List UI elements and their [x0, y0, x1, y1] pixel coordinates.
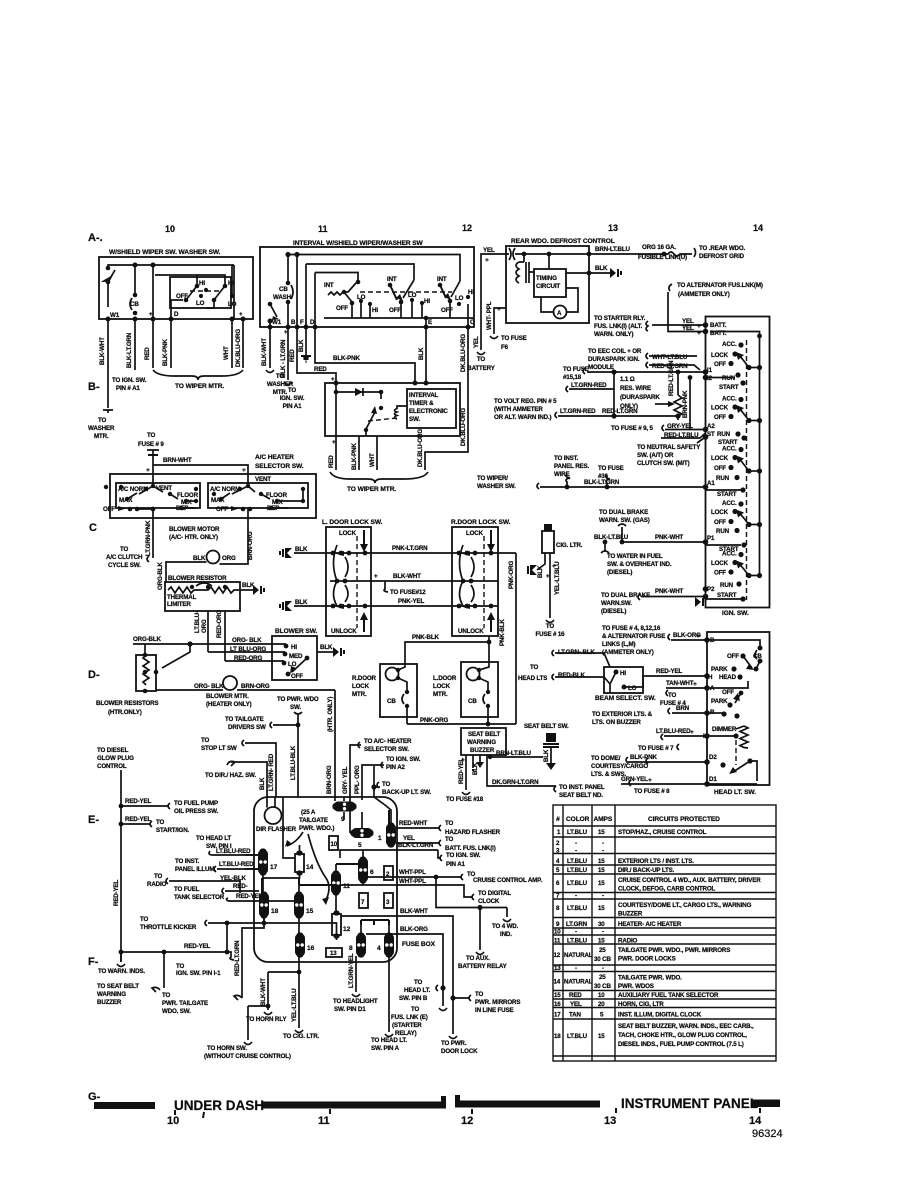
svg-text:-: -	[575, 848, 577, 855]
svg-text:15: 15	[598, 1033, 605, 1040]
svg-text:TO WIPER/: TO WIPER/	[477, 475, 508, 482]
svg-text:BUZZER: BUZZER	[618, 911, 643, 918]
svg-text:RED-YEL: RED-YEL	[458, 758, 465, 784]
svg-text:DK.BLU-ORG: DK.BLU-ORG	[235, 329, 242, 367]
svg-text:IN LINE FUSE: IN LINE FUSE	[475, 1007, 513, 1014]
svg-text:ACC.: ACC.	[722, 341, 737, 348]
fuse 14	[295, 854, 304, 872]
svg-text:RED-LT.GRN: RED-LT.GRN	[602, 408, 638, 415]
ground cig	[530, 565, 537, 575]
svg-text:SEAT BELT BUZZER, WARN. INDS.,: SEAT BELT BUZZER, WARN. INDS., EEC CARB.…	[618, 1023, 754, 1030]
wire BLK-WHT to washer motor	[107, 319, 109, 408]
svg-text:TO INST. PANEL: TO INST. PANEL	[559, 784, 605, 791]
svg-text:DIR./ BACK-UP LTS.: DIR./ BACK-UP LTS.	[618, 867, 675, 874]
timing circuit box U1	[534, 269, 566, 297]
svg-text:BLK: BLK	[537, 565, 544, 578]
wire YEL BATT 1	[652, 324, 706, 326]
svg-text:13: 13	[608, 223, 618, 233]
svg-text:TO: TO	[98, 417, 107, 424]
svg-text:TAILGATE PWR. WDO.: TAILGATE PWR. WDO.	[618, 975, 682, 982]
svg-text:A: A	[557, 310, 562, 317]
svg-text:RED-WHT: RED-WHT	[399, 820, 428, 827]
svg-text:TO: TO	[382, 781, 391, 788]
svg-text:BLK-PNK: BLK-PNK	[630, 754, 657, 761]
svg-text:#15,18: #15,18	[563, 374, 582, 381]
svg-text:11: 11	[343, 883, 350, 890]
svg-text:SW. PIN A: SW. PIN A	[371, 1045, 400, 1052]
svg-text:LOCK: LOCK	[711, 352, 729, 359]
blower switch arm	[305, 656, 310, 661]
svg-text:HEATER- A/C HEATER: HEATER- A/C HEATER	[618, 921, 682, 928]
svg-text:+: +	[552, 563, 556, 570]
svg-text:CYCLE SW.: CYCLE SW.	[108, 562, 141, 569]
svg-text:TO PWR.: TO PWR.	[441, 1040, 467, 1047]
svg-text:RED-YEL: RED-YEL	[113, 880, 120, 906]
svg-text:WHT-PPL: WHT-PPL	[399, 878, 426, 885]
svg-text:RED-LT.GRN: RED-LT.GRN	[668, 360, 675, 396]
svg-text:YEL: YEL	[682, 325, 694, 332]
svg-text:RED-YEL: RED-YEL	[125, 816, 151, 823]
svg-text:12: 12	[554, 952, 561, 959]
svg-text:LTS. ON BUZZER: LTS. ON BUZZER	[592, 719, 641, 726]
internal bus wires	[299, 810, 389, 925]
svg-text:15: 15	[598, 858, 605, 865]
relay coil	[380, 392, 382, 399]
svg-text:DK.BLU-ORG: DK.BLU-ORG	[417, 429, 424, 467]
svg-text:(DIESEL): (DIESEL)	[607, 569, 632, 576]
svg-text:A/C CLUTCH: A/C CLUTCH	[106, 554, 143, 561]
fuse 4	[384, 934, 394, 956]
svg-text:15: 15	[598, 880, 605, 887]
svg-text:TO ALTERNATOR FUS.LNK(M): TO ALTERNATOR FUS.LNK(M)	[677, 282, 763, 289]
svg-text:TO A/C- HEATER: TO A/C- HEATER	[364, 738, 412, 745]
wire TAN-WHT to A	[666, 687, 707, 689]
svg-text:TO: TO	[475, 991, 484, 998]
svg-text:LO: LO	[408, 292, 417, 299]
svg-text:FUSE # 9: FUSE # 9	[138, 441, 164, 448]
svg-text:+: +	[690, 729, 694, 736]
diode	[355, 388, 363, 396]
svg-text:TO: TO	[546, 623, 555, 630]
svg-text:OIL PRESS SW.: OIL PRESS SW.	[174, 808, 218, 815]
svg-text:CLUTCH SW. (M/T): CLUTCH SW. (M/T)	[637, 460, 690, 467]
svg-text:10: 10	[554, 929, 561, 936]
svg-text:ACC.: ACC.	[722, 500, 737, 507]
svg-text:RADIO: RADIO	[618, 938, 638, 945]
svg-text:+: +	[239, 311, 243, 318]
svg-text:RED: RED	[328, 455, 335, 468]
svg-text:TO CIG. LTR.: TO CIG. LTR.	[283, 1033, 320, 1040]
svg-text:BRN-LT.BLU: BRN-LT.BLU	[496, 750, 531, 757]
ROWCOL_LABELS	[88, 223, 763, 1103]
svg-text:RED-LT.GRN: RED-LT.GRN	[234, 940, 241, 976]
svg-text:BACK-UP LT. SW.: BACK-UP LT. SW.	[382, 789, 432, 796]
wire W1 to washer mtr	[269, 327, 271, 368]
svg-text:WHT: WHT	[223, 346, 230, 360]
resistor res wire	[674, 395, 682, 416]
svg-text:11: 11	[554, 938, 561, 945]
svg-text:+: +	[696, 633, 700, 640]
circuit breaker CB	[133, 293, 138, 298]
wiper speed switch contacts	[171, 300, 183, 319]
SEC_BOTTOM	[94, 1095, 783, 1140]
svg-text:8: 8	[349, 945, 353, 952]
svg-text:IND.: IND.	[500, 931, 512, 938]
svg-text:16: 16	[307, 945, 315, 952]
svg-text:HI: HI	[620, 670, 626, 677]
seat belt warning buzzer F	[152, 952, 164, 992]
svg-text:MTR.: MTR.	[94, 433, 109, 440]
svg-text:-: -	[575, 893, 577, 900]
brace to wiper mtr	[330, 472, 428, 483]
svg-text:ORG 16 GA.: ORG 16 GA.	[642, 244, 676, 251]
svg-text:1.1 Ω: 1.1 Ω	[620, 376, 635, 383]
svg-text:RED: RED	[569, 992, 582, 999]
svg-text:13: 13	[330, 950, 337, 957]
spare box 13	[326, 948, 342, 957]
svg-text:ORG: ORG	[201, 619, 208, 633]
svg-text:ORG-BLK: ORG-BLK	[157, 561, 164, 590]
svg-text:BATT.: BATT.	[710, 322, 727, 329]
svg-text:BATTERY: BATTERY	[467, 365, 496, 372]
svg-text:BLK-WHT: BLK-WHT	[99, 337, 106, 365]
spare box 2	[384, 866, 393, 880]
svg-text:TO: TO	[156, 819, 165, 826]
svg-text:LT.GRN-RED: LT.GRN-RED	[560, 408, 596, 415]
svg-text:-: -	[602, 965, 604, 972]
svg-text:BEAM SELECT. SW.: BEAM SELECT. SW.	[595, 695, 656, 702]
svg-text:25: 25	[599, 947, 606, 954]
svg-text:F-: F-	[88, 956, 99, 968]
svg-text:ACC.: ACC.	[722, 446, 737, 453]
svg-text:SW.: SW.	[409, 416, 420, 423]
svg-text:INT: INT	[324, 282, 334, 289]
svg-text:DIR FLASHER: DIR FLASHER	[256, 826, 297, 833]
beam select switch	[604, 667, 643, 693]
svg-text:TO INST.: TO INST.	[175, 858, 200, 865]
wire GRN-YEL to D1	[621, 783, 707, 785]
svg-text:W/SHIELD WIPER SW. WASHER SW.: W/SHIELD WIPER SW. WASHER SW.	[109, 249, 221, 256]
svg-text:NATURAL: NATURAL	[564, 979, 593, 986]
svg-text:LOCK: LOCK	[711, 509, 729, 516]
svg-text:+: +	[146, 467, 150, 474]
svg-text:BATTERY RELAY: BATTERY RELAY	[458, 963, 508, 970]
svg-text:TO INST.: TO INST.	[554, 455, 579, 462]
svg-text:OFF: OFF	[714, 361, 726, 368]
svg-text:BLK-WHT: BLK-WHT	[260, 978, 267, 1006]
svg-text:STOP LT SW: STOP LT SW	[201, 745, 237, 752]
capacitor symbol	[509, 248, 524, 260]
svg-text:BATT. FUS. LNK(I): BATT. FUS. LNK(I)	[445, 845, 496, 852]
svg-text:TO: TO	[120, 546, 129, 553]
svg-text:SW.: SW.	[290, 704, 301, 711]
wire PNK-LT.GRN	[294, 552, 516, 554]
SEC_AC_HEATER	[96, 432, 344, 716]
svg-text:LOCK: LOCK	[433, 683, 451, 690]
svg-text:BLK-LT.GRN: BLK-LT.GRN	[126, 332, 133, 368]
svg-text:18: 18	[271, 908, 279, 915]
fuse 16	[295, 934, 305, 956]
svg-text:TO: TO	[162, 992, 171, 999]
wire RED-YEL from beam select	[643, 675, 707, 677]
svg-text:-: -	[575, 965, 577, 972]
svg-text:HEAD: HEAD	[719, 674, 737, 681]
grid column number 12 bottom	[471, 1109, 473, 1114]
spare box 10	[329, 836, 338, 850]
svg-text:#: #	[556, 816, 560, 823]
wire PNK-WHT to P2	[641, 596, 706, 598]
svg-text:TO: TO	[411, 1006, 420, 1013]
svg-text:11: 11	[318, 1115, 330, 1127]
washer switch	[268, 302, 273, 307]
fuse 6	[358, 858, 368, 882]
svg-text:CB: CB	[468, 698, 477, 705]
horn sw	[244, 1006, 268, 1045]
svg-text:TO DUAL BRAKE: TO DUAL BRAKE	[601, 592, 650, 599]
svg-text:UNLOCK: UNLOCK	[458, 628, 484, 635]
svg-text:30 CB: 30 CB	[594, 956, 611, 963]
svg-text:LTS. & SWS.: LTS. & SWS.	[591, 771, 626, 778]
wire bus2	[306, 264, 414, 280]
svg-text:A1: A1	[707, 480, 715, 487]
svg-text:TO SEAT BELT: TO SEAT BELT	[97, 983, 139, 990]
svg-text:+: +	[497, 306, 501, 313]
svg-text:INT: INT	[437, 276, 447, 283]
svg-text:RUN: RUN	[722, 375, 736, 382]
wire RED-WHT hazard flasher	[396, 827, 440, 829]
svg-text:DEFROST GRID: DEFROST GRID	[699, 253, 745, 260]
svg-text:5: 5	[358, 842, 362, 849]
svg-text:DRIVERS SW: DRIVERS SW	[228, 724, 266, 731]
svg-text:TO: TO	[140, 916, 149, 923]
svg-text:TO FUSE: TO FUSE	[501, 335, 527, 342]
BRN-PNK wire	[689, 378, 691, 430]
svg-text:TO FUSE # 4, 8,12,16: TO FUSE # 4, 8,12,16	[602, 625, 661, 632]
fuse 5	[352, 828, 372, 838]
svg-text:ACC.: ACC.	[722, 396, 737, 403]
svg-text:EXTERIOR LTS / INST. LTS.: EXTERIOR LTS / INST. LTS.	[618, 858, 694, 865]
svg-text:BRN-ORG: BRN-ORG	[247, 531, 254, 560]
svg-text:TACH, CHOKE HTR., GLOW PLUG CO: TACH, CHOKE HTR., GLOW PLUG CONTROL,	[618, 1032, 747, 1039]
svg-text:R.DOOR LOCK SW.: R.DOOR LOCK SW.	[451, 519, 511, 526]
svg-text:RADIO: RADIO	[147, 881, 167, 888]
svg-text:(DIESEL): (DIESEL)	[601, 608, 626, 615]
svg-text:(STARTER: (STARTER	[392, 1022, 422, 1029]
svg-text:SEAT BELT SW.: SEAT BELT SW.	[524, 723, 569, 730]
fuse 18	[259, 893, 269, 917]
svg-text:30: 30	[598, 921, 605, 928]
svg-text:WASHER: WASHER	[88, 425, 115, 432]
svg-text:IGN. SW.: IGN. SW.	[722, 610, 749, 617]
svg-text:LO: LO	[455, 295, 464, 302]
svg-text:LT.BLU: LT.BLU	[567, 829, 588, 836]
svg-text:CIG. LTR.: CIG. LTR.	[556, 542, 583, 549]
svg-text:RED: RED	[144, 347, 151, 360]
svg-text:HI: HI	[468, 289, 474, 296]
svg-text:PARK: PARK	[711, 698, 728, 705]
svg-text:ORG-BLK: ORG-BLK	[133, 636, 162, 643]
fuse table frame	[553, 805, 776, 1061]
svg-text:AUXILIARY FUEL TANK SELECTOR: AUXILIARY FUEL TANK SELECTOR	[618, 992, 719, 999]
svg-text:OFF: OFF	[291, 673, 303, 680]
svg-text:PNK-BLK: PNK-BLK	[499, 619, 506, 646]
svg-text:ELECTRONIC: ELECTRONIC	[409, 408, 448, 415]
svg-text:OR ALT. WARN IND.): OR ALT. WARN IND.)	[494, 414, 552, 421]
svg-text:WHT-PPL: WHT-PPL	[399, 869, 426, 876]
svg-text:BLK-PNK: BLK-PNK	[351, 443, 358, 470]
ground blower resistor	[253, 585, 259, 595]
svg-text:30 CB: 30 CB	[594, 983, 611, 990]
svg-text:(25 A: (25 A	[301, 809, 316, 816]
svg-text:+: +	[149, 311, 153, 318]
svg-text:W1: W1	[272, 319, 282, 326]
timer internals	[336, 383, 381, 436]
instrument panel bar right	[752, 1100, 780, 1108]
svg-text:RED-: RED-	[233, 883, 248, 890]
wire BLK-LT.GRN to A1	[540, 486, 706, 488]
svg-text:TO VOLT REG. PIN # 5: TO VOLT REG. PIN # 5	[494, 398, 557, 405]
svg-text:D1: D1	[709, 776, 717, 783]
svg-text:TO HORN RLY: TO HORN RLY	[246, 1016, 287, 1023]
svg-text:LT.BLU: LT.BLU	[567, 905, 588, 912]
svg-text:WHT- PPL: WHT- PPL	[486, 301, 493, 330]
svg-text:CIRCUITS PROTECTED: CIRCUITS PROTECTED	[648, 816, 720, 823]
svg-text:PIN A2: PIN A2	[386, 764, 406, 771]
svg-text:+: +	[374, 573, 378, 580]
svg-text:P1: P1	[707, 535, 715, 542]
svg-text:+: +	[693, 681, 697, 688]
svg-text:14: 14	[554, 979, 561, 986]
svg-text:TO: TO	[201, 737, 210, 744]
svg-text:COLOR: COLOR	[566, 816, 590, 823]
svg-text:COURTESY/DOME LT., CARGO LTS.,: COURTESY/DOME LT., CARGO LTS., WARNING	[618, 902, 752, 909]
svg-text:CRUISE CONTROL AMP.: CRUISE CONTROL AMP.	[473, 877, 542, 884]
svg-text:LT.GRN-YEL: LT.GRN-YEL	[348, 953, 355, 988]
svg-text:B: B	[291, 319, 296, 326]
svg-text:CB: CB	[387, 698, 396, 705]
svg-text:BLK: BLK	[295, 546, 308, 553]
svg-text:PNK-LT.GRN: PNK-LT.GRN	[392, 545, 428, 552]
svg-text:ORG- BLK: ORG- BLK	[232, 637, 262, 644]
fuse 15	[294, 893, 304, 917]
svg-text:FLOOR: FLOOR	[177, 492, 199, 499]
wire RED-ORG to LO	[225, 660, 284, 662]
svg-text:PIN A1: PIN A1	[446, 861, 466, 868]
svg-text:14: 14	[753, 223, 763, 233]
svg-text:BLK-ORG: BLK-ORG	[400, 926, 428, 933]
svg-text:LT.BLU-RED: LT.BLU-RED	[656, 728, 691, 735]
svg-text:TO EXTERIOR LTS. &: TO EXTERIOR LTS. &	[592, 711, 653, 718]
svg-text:TO WIPER MTR.: TO WIPER MTR.	[347, 486, 396, 493]
svg-text:YEL: YEL	[473, 336, 480, 348]
svg-text:LOCK: LOCK	[466, 530, 484, 537]
resistor dimmer	[736, 726, 748, 748]
svg-text:TO HEADLIGHT: TO HEADLIGHT	[333, 998, 378, 1005]
svg-text:17: 17	[270, 864, 278, 871]
svg-text:(A/C- HTR. ONLY): (A/C- HTR. ONLY)	[169, 534, 218, 541]
SEC_DEFROST	[467, 238, 763, 372]
svg-text:PIN # A1: PIN # A1	[116, 385, 140, 392]
svg-text:+: +	[284, 329, 288, 336]
svg-text:DK.GRN-LT.GRN: DK.GRN-LT.GRN	[492, 779, 539, 786]
svg-text:13: 13	[554, 965, 561, 972]
blower resistors (htr only) box	[136, 655, 156, 691]
svg-text:MTR.: MTR.	[352, 691, 367, 698]
svg-text:TO AUX.: TO AUX.	[466, 955, 490, 962]
wire BLK ground from F	[305, 327, 307, 355]
svg-text:ORG: ORG	[222, 555, 236, 562]
R door lock motor	[380, 664, 417, 717]
svg-text:TO DIESEL: TO DIESEL	[97, 747, 129, 754]
svg-text:INT: INT	[387, 276, 397, 283]
wire bus1	[288, 255, 460, 282]
svg-text:6: 6	[370, 869, 374, 876]
ground 2	[285, 601, 292, 611]
svg-text:THROTTLE KICKER: THROTTLE KICKER	[140, 924, 197, 931]
svg-text:STOP/HAZ., CRUISE CONTROL: STOP/HAZ., CRUISE CONTROL	[618, 829, 707, 836]
svg-text:TO: TO	[147, 432, 156, 439]
svg-text:SW. PIN D1: SW. PIN D1	[334, 1006, 366, 1013]
svg-text:RUN: RUN	[720, 582, 734, 589]
SEC_IGNSW	[695, 317, 770, 618]
svg-text:MED: MED	[289, 653, 303, 660]
svg-text:15: 15	[598, 938, 605, 945]
svg-text:BRN: BRN	[676, 705, 690, 712]
svg-text:SW. (A/T) OR: SW. (A/T) OR	[637, 452, 674, 459]
svg-text:BLK-WHT: BLK-WHT	[400, 908, 428, 915]
svg-text:LOCK: LOCK	[711, 560, 729, 567]
selector group 2	[208, 483, 308, 508]
svg-text:START: START	[717, 592, 737, 599]
svg-text:R.DOOR: R.DOOR	[352, 675, 377, 682]
svg-text:OFF: OFF	[722, 689, 734, 696]
svg-text:HEAD LT.: HEAD LT.	[404, 987, 431, 994]
svg-text:PPL- ORG: PPL- ORG	[354, 765, 361, 794]
svg-text:LT.BLU-RED: LT.BLU-RED	[219, 861, 254, 868]
svg-text:BLK-LT.GRN: BLK-LT.GRN	[584, 479, 620, 486]
svg-text:TO 4 WD.: TO 4 WD.	[492, 923, 519, 930]
svg-text:-: -	[602, 929, 604, 936]
svg-text:13: 13	[604, 1115, 616, 1127]
svg-text:LT.BLU: LT.BLU	[567, 858, 588, 865]
svg-text:UNLOCK: UNLOCK	[331, 628, 357, 635]
svg-text:E: E	[428, 319, 432, 326]
svg-text:DK.BLU-ORG: DK.BLU-ORG	[460, 408, 467, 446]
svg-text:PNK-YEL: PNK-YEL	[398, 598, 424, 605]
svg-text:-: -	[575, 840, 577, 847]
svg-text:RES. WIRE: RES. WIRE	[620, 385, 651, 392]
svg-text:15: 15	[554, 992, 561, 999]
svg-text:BLK: BLK	[259, 777, 266, 790]
svg-text:HI: HI	[199, 280, 205, 287]
svg-text:INTERVAL W/SHIELD WIPER/WASHE: INTERVAL W/SHIELD WIPER/WASHER SW	[293, 240, 424, 247]
svg-text:OFF: OFF	[103, 506, 115, 513]
svg-text:LOCK: LOCK	[352, 683, 370, 690]
svg-text:LT.GRN- RED: LT.GRN- RED	[268, 753, 275, 791]
svg-text:10: 10	[331, 841, 338, 848]
wire PNK-ORG bottom	[407, 723, 516, 725]
terminals W1 B F D E C	[268, 325, 273, 330]
svg-text:96324: 96324	[752, 1128, 783, 1140]
svg-text:14: 14	[749, 1115, 762, 1127]
wire BLK-ORG head lt pin B / fus lnk E	[366, 934, 447, 1011]
selector group 1	[116, 483, 200, 508]
svg-text:D: D	[174, 311, 179, 318]
svg-text:LO: LO	[196, 300, 205, 307]
horn rly	[264, 972, 299, 1015]
svg-text:14: 14	[306, 864, 314, 871]
relay coil	[523, 254, 525, 262]
